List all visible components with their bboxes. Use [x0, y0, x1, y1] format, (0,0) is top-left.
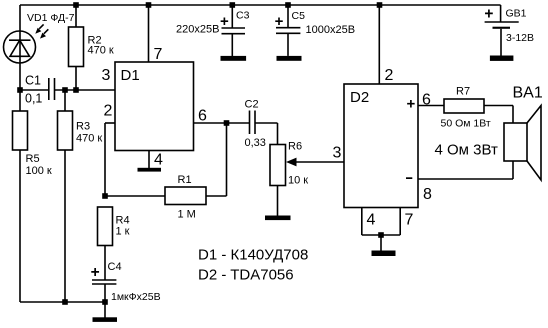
speaker BA1 [504, 106, 541, 181]
battery GB1 [485, 22, 519, 56]
svg-text:D2 - TDA7056: D2 - TDA7056 [198, 267, 294, 284]
resistor R6 potentiometer [270, 145, 286, 216]
svg-text:3-12В: 3-12В [506, 32, 534, 44]
svg-text:0,1: 0,1 [25, 92, 42, 106]
capacitor C5 [276, 5, 300, 56]
photodiode VD1 [4, 31, 36, 63]
node R2 top junction [73, 2, 79, 8]
capacitor C3 [222, 5, 246, 56]
resistor R2 [69, 5, 84, 90]
wire photodiode top lead [19, 5, 21, 31]
capacitor C4 [92, 280, 116, 302]
svg-text:D1: D1 [121, 67, 140, 84]
svg-text:C1: C1 [25, 74, 41, 88]
svg-text:3: 3 [333, 145, 342, 162]
wire D2 pin2 [378, 5, 380, 84]
photodiode light arrow 2 [40, 29, 48, 38]
svg-text:R1: R1 [178, 174, 192, 186]
wire D1 pin4 [148, 151, 150, 169]
R6 wiper arrow [286, 158, 297, 167]
svg-text:4 Ом 3Вт: 4 Ом 3Вт [435, 142, 499, 159]
resistor R3 [58, 90, 73, 302]
svg-text:6: 6 [198, 108, 207, 125]
svg-text:4: 4 [367, 212, 376, 229]
node R3 bottom junction [62, 299, 68, 305]
resistor R5 [13, 90, 28, 302]
svg-text:R3: R3 [76, 121, 90, 133]
wire photodiode bottom lead to C1 node [19, 63, 21, 90]
svg-text:10 к: 10 к [288, 175, 308, 187]
svg-text:GB1: GB1 [506, 8, 527, 20]
svg-text:BA1: BA1 [513, 85, 543, 102]
wire D2 pin6 to R7 [418, 105, 444, 107]
svg-text:3: 3 [102, 67, 111, 84]
svg-text:R5: R5 [26, 153, 40, 165]
node R4 R1 junction [102, 193, 108, 199]
photodiode light arrow 1 [35, 24, 43, 33]
node C4 bottom junction [102, 299, 108, 305]
ground D2 [372, 251, 396, 257]
svg-text:C2: C2 [245, 99, 259, 111]
wire D1 pin6 [194, 122, 250, 124]
svg-text:0,33: 0,33 [245, 137, 266, 149]
svg-text:R6: R6 [288, 141, 302, 153]
svg-text:1мкФх25В: 1мкФх25В [111, 291, 161, 303]
capacitor C1 [20, 78, 115, 100]
resistor R1 [105, 187, 227, 205]
polarity minus D2 [406, 177, 412, 179]
node D2 pins 4 7 junction [378, 232, 384, 238]
svg-text:220x25В: 220x25В [176, 24, 219, 36]
svg-text:+: + [91, 264, 100, 281]
wire D2 pins 4 7 [362, 208, 400, 251]
node C1 left junction [17, 87, 23, 93]
wire R6 wiper to D2 pin3 [296, 161, 344, 163]
svg-text:+: + [484, 6, 493, 23]
wire pin6 node down to R1 [226, 123, 228, 196]
node C3 top junction [230, 2, 236, 8]
svg-text:4: 4 [154, 152, 163, 169]
wire D1 pin2 [105, 123, 115, 196]
node R2 bottom junction [73, 87, 79, 93]
ground C3 [221, 56, 247, 61]
svg-text:2: 2 [104, 103, 113, 120]
op-amp D1 box [115, 62, 194, 151]
amplifier D2 box [344, 84, 418, 208]
svg-text:50 Ом 1Вт: 50 Ом 1Вт [441, 118, 491, 130]
svg-text:1 к: 1 к [116, 226, 130, 238]
svg-text:D2: D2 [350, 89, 369, 106]
svg-text:8: 8 [423, 186, 432, 203]
svg-text:7: 7 [405, 212, 414, 229]
svg-text:100 к: 100 к [26, 165, 52, 177]
wire top rail [20, 4, 501, 6]
ground D1 pin4 [138, 168, 162, 172]
svg-text:C5: C5 [292, 10, 306, 22]
svg-text:+: + [407, 96, 416, 113]
wire bottom rail [20, 301, 105, 303]
resistor R7 [444, 99, 513, 123]
ground C5 [277, 56, 302, 61]
svg-text:D1 - К140УД708: D1 - К140УД708 [198, 247, 308, 264]
ground bottom rail [93, 317, 118, 322]
svg-text:470 к: 470 к [76, 133, 102, 145]
wire ground stub bottom [104, 302, 106, 318]
svg-text:1 М: 1 М [178, 209, 196, 221]
svg-text:2: 2 [385, 67, 394, 84]
svg-text:+: + [275, 13, 284, 30]
node pin6 junction [224, 120, 230, 126]
node R3 top junction [62, 87, 68, 93]
node D1 pin7 junction [146, 2, 152, 8]
svg-text:VD1 ФД-7: VD1 ФД-7 [27, 12, 75, 24]
svg-text:C4: C4 [108, 261, 122, 273]
capacitor C2 [250, 111, 278, 145]
ground GB1 [490, 56, 514, 61]
svg-text:+: + [220, 13, 229, 30]
ground R6 [265, 216, 291, 221]
svg-text:C3: C3 [236, 10, 250, 22]
wire GB1 top lead [500, 5, 502, 22]
svg-text:1000x25В: 1000x25В [306, 24, 356, 36]
svg-text:7: 7 [154, 46, 163, 63]
resistor R4 [98, 207, 113, 280]
svg-text:R7: R7 [456, 86, 470, 98]
svg-text:6: 6 [422, 92, 431, 109]
node D2 pin2 junction [377, 2, 383, 8]
node C5 top junction [285, 2, 291, 8]
svg-text:470 к: 470 к [88, 45, 114, 57]
wire D2 pin8 to speaker [418, 161, 513, 179]
wire D1 pin7 [148, 5, 150, 62]
